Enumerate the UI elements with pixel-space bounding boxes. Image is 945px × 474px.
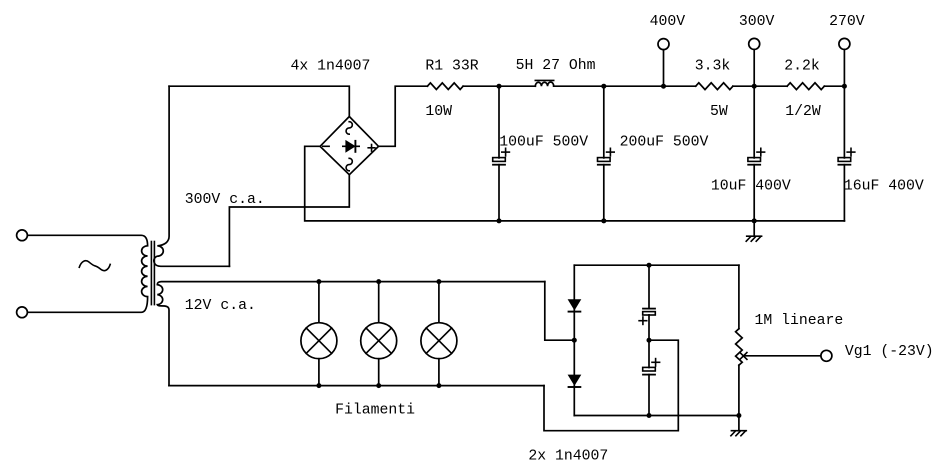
terminal Vg1 — [821, 350, 832, 361]
svg-text:2x 1n4007: 2x 1n4007 — [528, 449, 608, 465]
bridge plus sign — [368, 147, 375, 149]
svg-text:5W: 5W — [710, 104, 728, 120]
wire: 300V c.a. return to bridge AC2 — [229, 175, 349, 267]
junction dot cap midpoint — [647, 338, 652, 343]
diode D2 1n4007 — [568, 375, 582, 386]
wire: 3.3k to 2.2k — [733, 85, 787, 87]
terminal J1 (AC input top) — [17, 230, 28, 241]
diode D1 1n4007 — [568, 299, 582, 310]
capacitor C3 10uF 400V — [753, 86, 755, 158]
capacitor C4 16uF 400V — [843, 86, 845, 158]
resistor R1 33R 10W — [427, 83, 463, 90]
wire: bridge minus to ground rail — [305, 146, 845, 221]
bridge AC squiggle top — [346, 122, 352, 135]
svg-text:4x 1n4007: 4x 1n4007 — [291, 58, 371, 74]
bridge internal diode symbol — [343, 145, 359, 147]
wire: 270V terminal to rail — [843, 50, 845, 87]
svg-text:400V: 400V — [650, 14, 686, 30]
terminal 400V — [658, 39, 669, 50]
ground symbol bias — [738, 416, 740, 431]
junction dot diode midpoint — [572, 338, 577, 343]
wire: bias top rail — [574, 264, 739, 266]
svg-text:12V c.a.: 12V c.a. — [185, 298, 256, 314]
svg-text:100uF 500V: 100uF 500V — [499, 134, 588, 150]
terminal 270V — [839, 38, 850, 49]
capacitor C6 (doubler bottom) — [643, 367, 656, 371]
transformer T1 primary winding with input wires — [28, 235, 148, 312]
junction dot 270V node — [842, 84, 847, 89]
junction dot filament bottom V3 — [436, 383, 441, 388]
junction dot filament top V3 — [436, 279, 441, 284]
transformer T1 secondary 12V winding with lead to filament rail — [157, 282, 545, 386]
junction dot HT rail / C2 — [601, 84, 606, 89]
inductor L1 5H 27 Ohm — [535, 82, 553, 86]
wire: R1 to choke — [463, 85, 535, 87]
wire: 2.2k to 270V node — [824, 85, 844, 87]
junction dot HT rail / C1 — [497, 84, 502, 89]
wire: top HT rail from secondary to bridge AC1 — [169, 86, 349, 116]
svg-text:Vg1 (-23V): Vg1 (-23V) — [845, 344, 934, 360]
bridge minus sign — [323, 145, 329, 147]
wire: wiper to Vg1 terminal — [743, 355, 821, 357]
resistor R3 2.2k 1/2W — [787, 83, 824, 90]
capacitor C2 200uF 500V — [603, 86, 605, 158]
lamp V3 (filament) — [438, 282, 440, 323]
svg-text:200uF 500V: 200uF 500V — [620, 134, 709, 150]
transformer T1 secondary 300V winding with lead up to HT rail — [154, 86, 230, 266]
junction dot filament top V1 — [316, 279, 321, 284]
wire: choke to 3.3k — [554, 85, 696, 87]
wire: filament bottom to doubler cap midpoint — [544, 340, 678, 431]
potentiometer P1 1M lineare — [738, 265, 740, 329]
svg-text:2.2k: 2.2k — [784, 59, 820, 75]
bridge rectifier 4x 1n4007 diamond — [320, 117, 378, 175]
svg-text:10W: 10W — [425, 104, 452, 120]
svg-text:10uF 400V: 10uF 400V — [711, 178, 791, 194]
junction dot filament top V2 — [376, 279, 381, 284]
svg-text:1M lineare: 1M lineare — [755, 313, 844, 329]
junction dot bias bottom rail / pot — [736, 413, 741, 418]
wire: 400V terminal to rail — [663, 50, 665, 86]
terminal J2 (AC input bottom) — [17, 307, 28, 318]
capacitor C1 100uF 500V — [498, 86, 500, 158]
svg-text:1/2W: 1/2W — [785, 104, 821, 120]
bridge AC squiggle bottom — [346, 158, 352, 171]
junction dot ground rail / C1 — [497, 218, 502, 223]
junction dot bias bottom rail / C6 — [647, 413, 652, 418]
wire: bias bottom rail — [574, 415, 739, 417]
transformer T1 core — [150, 242, 152, 305]
svg-text:16uF 400V: 16uF 400V — [844, 178, 924, 194]
lamp V2 (filament) — [378, 282, 380, 323]
svg-text:R1 33R: R1 33R — [425, 58, 478, 74]
wire: bridge plus up to R1 — [379, 86, 428, 146]
svg-text:3.3k: 3.3k — [695, 59, 731, 75]
junction dot filament bottom V2 — [376, 383, 381, 388]
junction dot 400V node — [661, 84, 666, 89]
wire: bias diode column — [573, 265, 575, 415]
junction dot ground rail / C2 — [601, 218, 606, 223]
resistor R2 3.3k 5W — [696, 83, 733, 90]
capacitor C5 (doubler top) — [648, 265, 650, 308]
svg-text:300V c.a.: 300V c.a. — [185, 192, 265, 208]
AC source sine symbol — [79, 261, 110, 271]
wire: 300V terminal to rail — [753, 50, 755, 87]
lamp V1 (filament) — [318, 282, 320, 323]
junction dot ground rail / C3 — [752, 218, 757, 223]
svg-text:300V: 300V — [739, 14, 775, 30]
junction dot bias top rail / C5 — [647, 263, 652, 268]
terminal 300V — [749, 38, 760, 49]
wire: filament bottom rail — [169, 385, 544, 387]
svg-text:5H 27 Ohm: 5H 27 Ohm — [516, 58, 596, 74]
ground symbol main — [753, 221, 755, 236]
potentiometer wiper — [740, 353, 747, 360]
junction dot filament bottom V1 — [316, 383, 321, 388]
svg-text:270V: 270V — [829, 14, 865, 30]
wire: filament top rail corner to doubler — [545, 282, 575, 341]
svg-text:Filamenti: Filamenti — [335, 403, 415, 419]
junction dot 300V node — [752, 84, 757, 89]
